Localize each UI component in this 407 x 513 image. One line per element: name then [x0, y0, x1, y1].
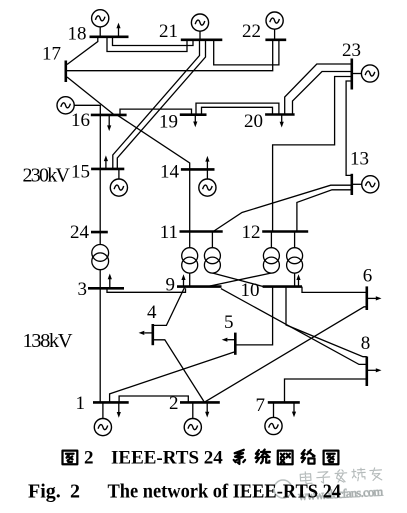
- svg-text:10: 10: [241, 280, 260, 301]
- bus 7: [268, 401, 300, 404]
- load arrow bus 3: [108, 274, 112, 289]
- wire 3-9: [107, 288, 186, 292]
- bus 8: [365, 357, 368, 387]
- load arrow bus 7: [292, 402, 296, 417]
- bus 2: [180, 401, 220, 404]
- wire 19-20 circuit 1: [196, 103, 279, 115]
- wire 13-23: [346, 81, 352, 175]
- generator G7: [265, 402, 282, 434]
- svg-text:The network of IEEE-RTS 24: The network of IEEE-RTS 24: [108, 481, 342, 503]
- svg-text:230kV: 230kV: [23, 165, 71, 187]
- bus 20: [265, 113, 295, 116]
- wire 17-18: [67, 37, 98, 65]
- svg-text:21: 21: [159, 21, 178, 42]
- wire 19-20 circuit 2: [202, 107, 273, 114]
- wire 15-24 and 24-3 column: [99, 169, 101, 244]
- generator G16: [57, 97, 100, 115]
- load arrow bus 10: [296, 274, 300, 286]
- wire 15-21 circuit 1: [113, 40, 200, 169]
- svg-text:15: 15: [71, 162, 90, 183]
- load arrow bus 9: [181, 274, 185, 286]
- svg-text:2: 2: [84, 448, 94, 469]
- svg-text:5: 5: [224, 312, 234, 333]
- svg-text:23: 23: [342, 40, 361, 61]
- wire 4-9: [153, 287, 185, 326]
- wire 11-13: [213, 185, 352, 231]
- svg-text:6: 6: [363, 266, 373, 287]
- svg-text:17: 17: [42, 44, 61, 65]
- svg-text:12: 12: [242, 222, 261, 243]
- generator G18: [92, 10, 109, 37]
- load arrow bus 1: [117, 402, 121, 417]
- svg-text:9: 9: [166, 275, 176, 296]
- svg-text:7: 7: [256, 395, 266, 416]
- wire 1-3: [99, 288, 101, 402]
- wire 12-23: [273, 77, 352, 232]
- wire 20-23 circuit 1: [285, 64, 352, 115]
- load arrow bus 20: [280, 115, 284, 128]
- svg-text:1: 1: [76, 393, 86, 414]
- load arrow bus 5: [222, 338, 236, 342]
- svg-text:22: 22: [242, 21, 261, 42]
- svg-text:11: 11: [160, 222, 178, 243]
- svg-text:3: 3: [78, 279, 88, 300]
- bus 6: [365, 286, 368, 310]
- load arrow bus 18: [116, 23, 120, 37]
- wire 11-14: [189, 169, 191, 231]
- svg-text:2: 2: [169, 393, 179, 414]
- wire 1-2: [119, 396, 188, 402]
- wire 2-4: [153, 340, 205, 403]
- generator G2: [184, 402, 201, 435]
- wire 15-21 circuit 2: [117, 40, 205, 169]
- bus 16: [91, 114, 127, 117]
- bus 13: [350, 174, 353, 195]
- svg-text:4: 4: [147, 302, 157, 323]
- svg-text:20: 20: [244, 111, 263, 132]
- wire 18-21 circuit 2: [107, 37, 187, 52]
- wire 14-16: [117, 115, 190, 169]
- wire 21-22: [214, 40, 279, 65]
- svg-text:14: 14: [160, 162, 180, 183]
- generator G23: [352, 65, 379, 82]
- bus 14: [181, 168, 215, 171]
- svg-text:19: 19: [159, 112, 178, 133]
- load arrow bus 8: [367, 368, 382, 372]
- transformer T9-11: [182, 232, 198, 287]
- bus 19: [180, 113, 207, 116]
- bus 22: [265, 38, 286, 41]
- bus 11: [180, 230, 223, 233]
- transformer T10-12: [287, 232, 303, 287]
- wire 5-10: [235, 287, 272, 345]
- generator G15: [110, 169, 127, 196]
- svg-text:Fig.: Fig.: [28, 481, 61, 503]
- wire 18-21 circuit 1: [113, 37, 194, 46]
- caption figure number (Chinese): [63, 451, 78, 465]
- wire 8-9: [221, 289, 367, 365]
- load arrow bus 4: [139, 331, 153, 335]
- load arrow bus 6: [367, 296, 382, 300]
- generator G21: [191, 14, 208, 40]
- svg-text:18: 18: [68, 24, 87, 45]
- bus 5: [234, 333, 237, 355]
- bus 21: [181, 38, 223, 41]
- wire 17-22: [67, 40, 273, 71]
- wire 12-13: [297, 190, 352, 232]
- wire 16-17: [67, 77, 114, 114]
- load arrow bus 16: [107, 115, 111, 131]
- wire 7-8: [285, 379, 367, 402]
- wire 2-6: [204, 307, 367, 403]
- generator G22: [266, 12, 283, 40]
- load arrow bus 15: [104, 155, 108, 169]
- generator G14: [199, 169, 216, 196]
- transformer T10-11: [204, 232, 263, 287]
- bus 4: [152, 324, 155, 345]
- bus 15: [91, 168, 124, 171]
- load arrow bus 2: [205, 402, 209, 417]
- generator G1: [94, 402, 111, 435]
- wire 20-23 circuit 2: [293, 72, 352, 115]
- transformer T24-3: [92, 245, 109, 270]
- svg-text:13: 13: [350, 149, 369, 170]
- bus 17: [65, 61, 68, 83]
- svg-text:2: 2: [70, 481, 80, 503]
- svg-text:138kV: 138kV: [23, 330, 73, 352]
- bus 24: [91, 231, 108, 234]
- svg-text:16: 16: [71, 110, 90, 131]
- bus 23: [350, 59, 353, 90]
- wire 16-19: [120, 109, 192, 115]
- svg-text:IEEE-RTS 24: IEEE-RTS 24: [111, 448, 223, 469]
- load arrow bus 19: [193, 115, 197, 128]
- wire 1-5: [110, 352, 236, 403]
- transformer T9-12: [207, 232, 279, 287]
- generator G13: [352, 176, 379, 193]
- bus 12: [262, 230, 308, 233]
- watermark stamp circle: [274, 480, 292, 498]
- bus 9: [177, 285, 222, 288]
- svg-text:8: 8: [361, 333, 371, 354]
- bus 3: [88, 287, 124, 290]
- wire 15-16: [99, 115, 101, 169]
- load arrow bus 14: [205, 156, 209, 170]
- wire 8-10: [286, 287, 367, 357]
- watermark gray characters: [300, 467, 382, 485]
- svg-text:24: 24: [70, 222, 90, 243]
- caption title (Chinese characters): [234, 450, 245, 464]
- bus 1: [93, 401, 129, 404]
- bus 10: [263, 285, 302, 288]
- wire 6-10: [302, 287, 367, 293]
- bus 18: [90, 35, 129, 38]
